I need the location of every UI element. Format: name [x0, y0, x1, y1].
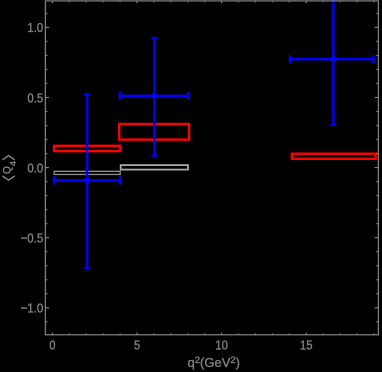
svg-text:10: 10: [215, 338, 228, 353]
svg-text:0.5: 0.5: [27, 90, 43, 105]
svg-text:5: 5: [134, 338, 140, 353]
svg-text:15: 15: [300, 338, 313, 353]
svg-text:−0.5: −0.5: [21, 231, 44, 246]
svg-text:0.0: 0.0: [27, 160, 43, 175]
svg-text:4: 4: [8, 161, 18, 166]
svg-text:1.0: 1.0: [27, 20, 43, 35]
svg-text:−1.0: −1.0: [21, 301, 44, 316]
svg-text:0: 0: [49, 338, 55, 353]
